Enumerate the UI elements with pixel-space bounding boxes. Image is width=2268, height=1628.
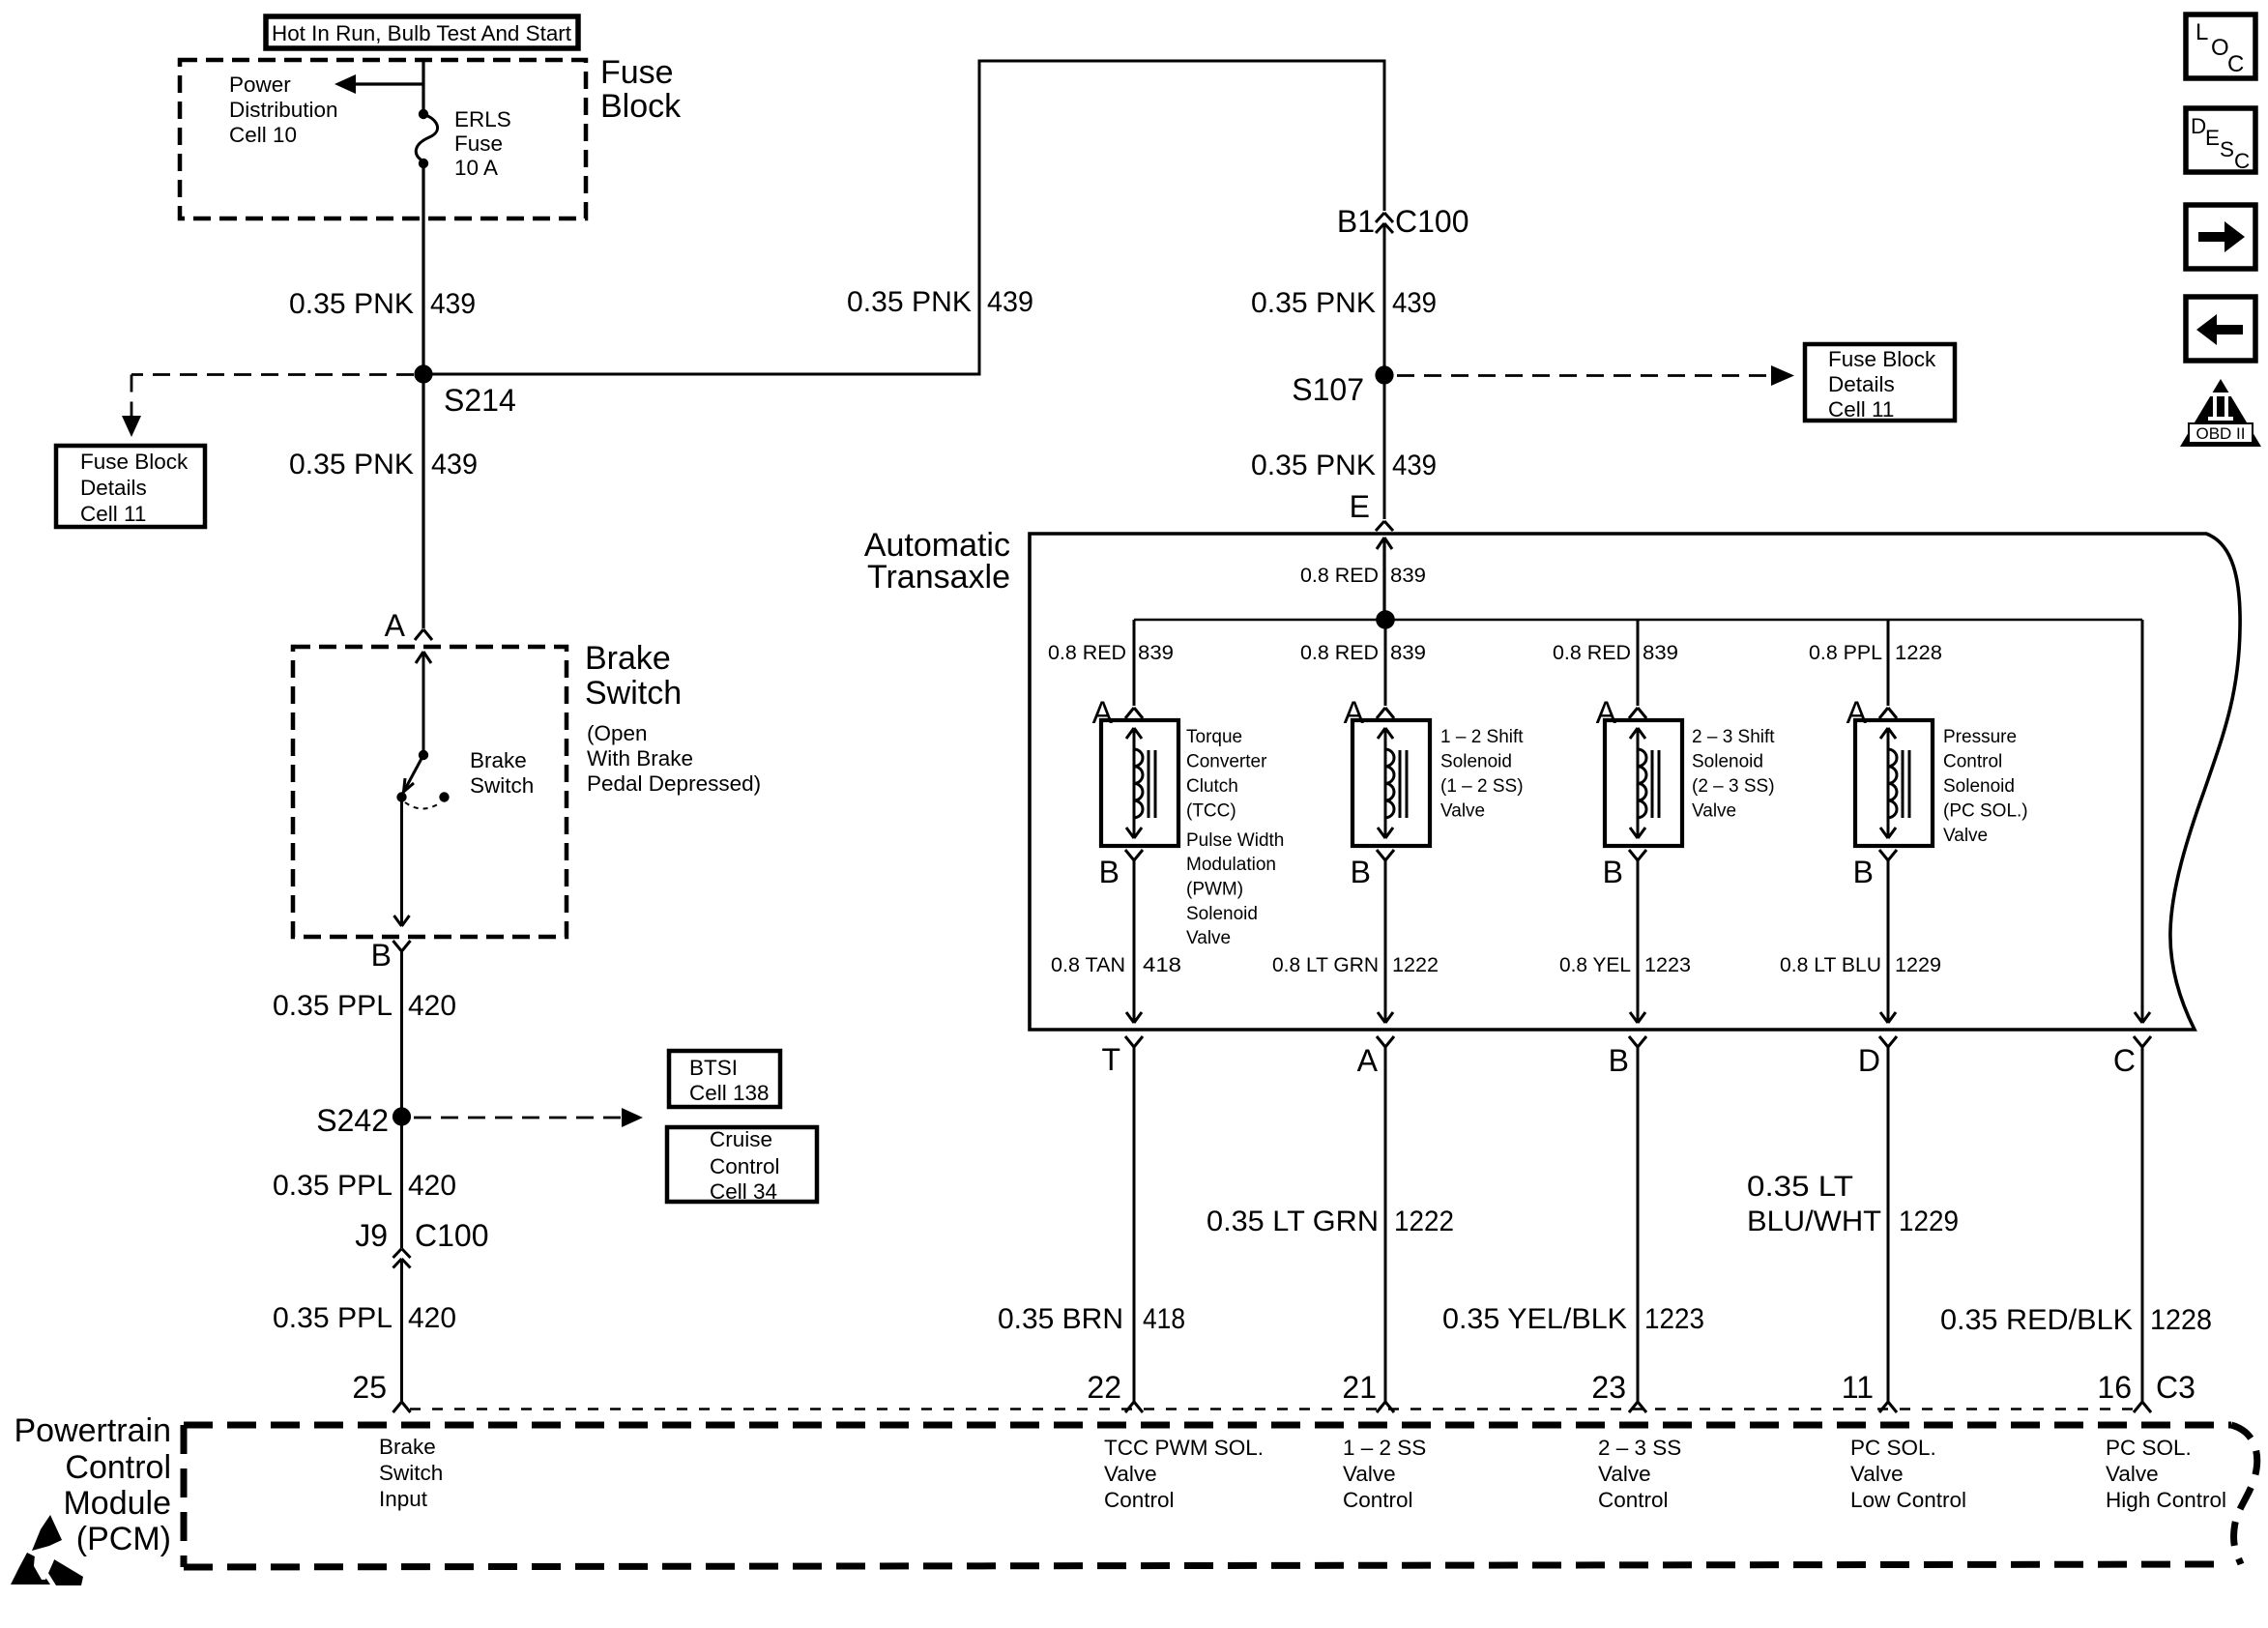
node: 2-3 SS valve control pin label — [1598, 1436, 1681, 1512]
solenoid L3: 2-3 shift solenoid valve coil — [1605, 720, 1682, 846]
svg-text:0.8 LT BLU: 0.8 LT BLU — [1780, 953, 1881, 976]
node B: PC solenoid pin B — [1853, 850, 1897, 889]
wire: D to PCM pin 11, 0.35 LT BLU/WHT 1229 — [1887, 1047, 1890, 1402]
node B: 2-3 shift solenoid pin B — [1603, 850, 1646, 889]
svg-text:Valve: Valve — [1692, 801, 1736, 822]
svg-text:Valve: Valve — [1943, 826, 1988, 846]
svg-text:439: 439 — [431, 449, 478, 480]
svg-text:0.35 YEL/BLK: 0.35 YEL/BLK — [1442, 1303, 1627, 1335]
node: distribution junction — [1376, 610, 1395, 629]
svg-text:Solenoid: Solenoid — [1186, 904, 1258, 924]
node: DESC legend icon — [2186, 108, 2255, 173]
svg-text:(PWM): (PWM) — [1186, 880, 1243, 900]
pin 25: PCM brake switch input pin — [352, 1370, 410, 1412]
node: wire label 0.35 YEL/BLK 1223 — [1442, 1303, 1704, 1335]
wire: B1 to S107, 0.35 PNK 439 — [1383, 223, 1386, 519]
solenoid L1: TCC PWM solenoid valve coil — [1101, 720, 1178, 846]
wire: PC B to transaxle case, 0.8 LT BLU 1229 — [1880, 860, 1896, 1023]
svg-text:Fuse Block: Fuse Block — [80, 450, 189, 474]
svg-text:1223: 1223 — [1644, 953, 1691, 976]
node T: transaxle case connector T — [1101, 1036, 1143, 1077]
svg-text:BLU/WHT: BLU/WHT — [1747, 1206, 1881, 1237]
svg-text:0.8 RED: 0.8 RED — [1048, 641, 1126, 664]
solenoid L4: pressure control solenoid valve coil — [1855, 720, 1933, 846]
svg-text:11: 11 — [1842, 1370, 1874, 1405]
pin 21: PCM 1-2 SS valve control pin — [1342, 1370, 1394, 1412]
svg-text:With Brake: With Brake — [587, 746, 693, 770]
svg-text:0.35 PNK: 0.35 PNK — [1251, 450, 1376, 481]
node: Brake Switch section label — [585, 640, 682, 712]
svg-text:Pedal Depressed): Pedal Depressed) — [587, 771, 761, 796]
svg-text:1228: 1228 — [2150, 1304, 2212, 1336]
svg-text:Valve: Valve — [1598, 1462, 1651, 1486]
svg-text:0.35 PNK: 0.35 PNK — [1251, 287, 1376, 319]
pin 16: PCM PC sol valve high control pin — [2097, 1370, 2151, 1412]
svg-text:1 – 2 SS: 1 – 2 SS — [1343, 1436, 1426, 1460]
svg-text:O: O — [2211, 35, 2229, 61]
svg-text:ERLS: ERLS — [454, 107, 511, 131]
svg-text:Control: Control — [710, 1154, 780, 1178]
svg-text:Pulse Width: Pulse Width — [1186, 830, 1284, 851]
svg-text:10 A: 10 A — [454, 156, 498, 180]
svg-text:B: B — [1609, 1043, 1629, 1078]
svg-text:Cruise: Cruise — [710, 1127, 772, 1151]
svg-text:S242: S242 — [316, 1103, 389, 1138]
svg-text:D: D — [2191, 114, 2206, 138]
svg-text:2 – 3 Shift: 2 – 3 Shift — [1692, 727, 1775, 747]
node: wire label 0.35 PNK 439 (middle run) — [847, 286, 1033, 318]
wire: PCM connector face dashed line — [410, 1408, 2142, 1410]
svg-text:839: 839 — [1643, 641, 1678, 664]
wire: B to PCM pin 23, 0.35 YEL/BLK 1223 — [1637, 1047, 1640, 1402]
svg-text:0.8 RED: 0.8 RED — [1553, 641, 1631, 664]
node: wire label 0.35 PPL 420 (below S242) — [273, 1170, 456, 1202]
wire: arrow to Power Distribution — [334, 74, 423, 94]
node: wire label 0.35 LT BLU/WHT 1229 — [1747, 1171, 1959, 1237]
node A: brake switch connector A — [385, 608, 432, 643]
svg-text:0.35 PNK: 0.35 PNK — [847, 286, 972, 318]
svg-text:Valve: Valve — [1850, 1462, 1904, 1486]
wire: fuse to S214, 0.35 PNK 439 — [422, 163, 424, 628]
node: TCC solenoid description — [1186, 727, 1284, 948]
svg-text:2 – 3 SS: 2 – 3 SS — [1598, 1436, 1681, 1460]
svg-text:Details: Details — [1828, 372, 1895, 396]
svg-text:Block: Block — [600, 88, 682, 125]
connector C100 pin J9 — [355, 1218, 488, 1268]
svg-text:J9: J9 — [355, 1218, 388, 1253]
node: wire label 0.35 PNK 439 (below S214) — [289, 449, 478, 480]
svg-text:Cell 10: Cell 10 — [229, 123, 297, 147]
node: Brake Switch Input pin label — [379, 1435, 443, 1511]
svg-text:(Open: (Open — [587, 721, 648, 745]
svg-text:1229: 1229 — [1899, 1206, 1959, 1237]
svg-text:B: B — [371, 938, 392, 973]
svg-text:Brake: Brake — [379, 1435, 436, 1459]
svg-text:1229: 1229 — [1895, 953, 1941, 976]
node E: transaxle connector E — [1350, 489, 1393, 531]
svg-text:S107: S107 — [1292, 372, 1364, 407]
node: wire label 0.35 PPL 420 (below C100) — [273, 1302, 456, 1334]
svg-text:0.35 LT: 0.35 LT — [1747, 1171, 1853, 1203]
node: Brake Switch device label — [470, 748, 534, 798]
svg-text:0.35 LT GRN: 0.35 LT GRN — [1207, 1206, 1379, 1237]
svg-text:0.8 RED: 0.8 RED — [1300, 564, 1379, 587]
wire: E into transaxle, 0.8 RED 839 with up arrow — [1377, 538, 1392, 620]
svg-text:Valve: Valve — [1343, 1462, 1396, 1486]
svg-text:Valve: Valve — [1440, 801, 1485, 822]
wire: TCC B to transaxle case, 0.8 TAN 418 — [1126, 860, 1142, 1023]
svg-text:(2 – 3 SS): (2 – 3 SS) — [1692, 776, 1775, 797]
svg-text:Cell 138: Cell 138 — [689, 1081, 770, 1105]
svg-text:Control: Control — [65, 1449, 171, 1486]
svg-text:0.35 BRN: 0.35 BRN — [998, 1303, 1123, 1335]
splice S242 — [316, 1103, 411, 1138]
svg-text:420: 420 — [408, 1170, 456, 1202]
node A: transaxle case connector A — [1357, 1036, 1394, 1078]
node: Hot In Run feed title box — [266, 16, 578, 48]
node: ERLS Fuse 10 A label — [454, 107, 511, 180]
wire: PC SOL high side drop (bus to case C) — [2135, 620, 2150, 1023]
svg-text:Control: Control — [1943, 752, 2002, 772]
node: forward arrow legend icon — [2186, 205, 2255, 269]
node: brake switch open note — [587, 721, 761, 796]
svg-text:420: 420 — [408, 990, 456, 1022]
svg-text:Valve: Valve — [1104, 1462, 1157, 1486]
svg-text:839: 839 — [1138, 641, 1174, 664]
svg-text:0.35 PNK: 0.35 PNK — [289, 288, 414, 320]
node: 1-2 SS valve control pin label — [1343, 1436, 1426, 1512]
svg-text:Torque: Torque — [1186, 727, 1242, 747]
svg-text:439: 439 — [430, 288, 476, 320]
svg-text:0.8 RED: 0.8 RED — [1300, 641, 1379, 664]
svg-text:A: A — [1357, 1043, 1379, 1078]
svg-text:B1: B1 — [1337, 204, 1375, 239]
svg-text:(PC SOL.): (PC SOL.) — [1943, 801, 2028, 822]
wire: feed into fuse block — [422, 60, 424, 112]
svg-text:1228: 1228 — [1895, 641, 1942, 664]
brake switch SW1 (dashed enclosure) — [293, 647, 567, 937]
svg-text:(TCC): (TCC) — [1186, 801, 1236, 822]
svg-text:Control: Control — [1104, 1488, 1175, 1512]
wire: PC SOL branch drop, 0.8 PPL 1228 — [1887, 620, 1890, 706]
svg-text:Brake: Brake — [585, 640, 671, 677]
node: PC solenoid description — [1943, 727, 2028, 846]
svg-text:Cell 34: Cell 34 — [710, 1179, 777, 1204]
svg-text:Transaxle: Transaxle — [867, 559, 1010, 596]
svg-text:Cell 11: Cell 11 — [80, 502, 146, 526]
fuse ERLS 10A — [416, 109, 437, 168]
node: 2-3 shift solenoid description — [1692, 727, 1775, 822]
svg-text:0.35 PPL: 0.35 PPL — [273, 1170, 393, 1202]
svg-text:Switch: Switch — [470, 773, 534, 798]
svg-text:OBD II: OBD II — [2195, 424, 2245, 443]
svg-text:0.8 PPL: 0.8 PPL — [1809, 641, 1882, 664]
svg-text:C: C — [2234, 149, 2250, 173]
svg-text:(1 – 2 SS): (1 – 2 SS) — [1440, 776, 1524, 797]
wire: A to PCM pin 21, 0.35 LT GRN 1222 — [1384, 1047, 1387, 1402]
node A: PC solenoid pin A — [1846, 695, 1897, 730]
svg-text:Control: Control — [1598, 1488, 1669, 1512]
wire: 1-2 shift branch drop, 0.8 RED 839 — [1384, 620, 1387, 706]
node: Fuse Block Details Cell 11 box (right) — [1805, 344, 1955, 422]
svg-text:Distribution: Distribution — [229, 98, 338, 122]
svg-text:S: S — [2220, 137, 2234, 161]
svg-text:BTSI: BTSI — [689, 1056, 738, 1080]
fuse block (dashed enclosure) — [180, 60, 586, 218]
node A: 2-3 shift solenoid pin A — [1596, 695, 1646, 730]
node: LOC legend icon — [2186, 15, 2255, 78]
pin 11: PCM PC sol valve low control pin — [1842, 1370, 1897, 1412]
wire: dashed reference from S214 to Fuse Block Details — [122, 375, 414, 438]
wire: S214 to C100 riser (0.35 PNK 439) — [423, 61, 1384, 374]
svg-text:TCC PWM SOL.: TCC PWM SOL. — [1104, 1436, 1264, 1460]
node: wire label 0.8 LT BLU 1229 — [1780, 953, 1941, 976]
svg-text:Powertrain: Powertrain — [14, 1412, 171, 1449]
svg-text:0.35 PPL: 0.35 PPL — [273, 990, 393, 1022]
svg-text:Pressure: Pressure — [1943, 727, 2017, 747]
node: wire label 0.35 RED/BLK 1228 — [1940, 1304, 2212, 1336]
wire: 2-3 shift branch drop, 0.8 RED 839 — [1637, 620, 1640, 706]
svg-text:Brake: Brake — [470, 748, 527, 772]
node A: TCC solenoid pin A — [1092, 695, 1143, 730]
svg-text:Converter: Converter — [1186, 752, 1267, 772]
svg-text:Solenoid: Solenoid — [1692, 752, 1763, 772]
node: Powertrain Control Module (PCM) label — [14, 1412, 171, 1557]
splice S214 — [414, 364, 515, 418]
svg-text:22: 22 — [1087, 1370, 1121, 1405]
svg-text:Fuse: Fuse — [600, 54, 674, 91]
node: OBD II icon — [2180, 379, 2261, 447]
svg-text:PC SOL.: PC SOL. — [1850, 1436, 1936, 1460]
node: wire label 0.8 TAN 418 — [1051, 953, 1181, 976]
svg-text:839: 839 — [1390, 641, 1426, 664]
switch: brake switch contacts and blade — [396, 750, 449, 809]
svg-text:1 – 2 Shift: 1 – 2 Shift — [1440, 727, 1524, 747]
svg-text:Fuse: Fuse — [454, 131, 503, 156]
node: Fuse Block Details Cell 11 box (left) — [56, 446, 205, 527]
node: wire label 0.8 RED 839 (1-2 branch) — [1300, 641, 1426, 664]
wire: switch to B with down arrow — [394, 798, 410, 927]
node B: brake switch connector B — [371, 938, 411, 973]
svg-text:420: 420 — [408, 1302, 456, 1334]
svg-text:1222: 1222 — [1392, 953, 1439, 976]
svg-text:Low Control: Low Control — [1850, 1488, 1966, 1512]
solenoid L2: 1-2 shift solenoid valve coil — [1352, 720, 1430, 846]
wire: 2-3 B to transaxle case, 0.8 YEL 1223 — [1630, 860, 1645, 1023]
wire: TCC branch drop, 0.8 RED 839 — [1133, 620, 1136, 706]
svg-text:Solenoid: Solenoid — [1943, 776, 2015, 797]
svg-text:Input: Input — [379, 1487, 428, 1511]
node: PC SOL valve high control pin label — [2106, 1436, 2226, 1512]
node B: TCC solenoid pin B — [1099, 850, 1143, 889]
node: wire label 0.35 PNK 439 (above S214) — [289, 288, 476, 320]
svg-text:439: 439 — [1392, 287, 1437, 319]
pin 22: PCM TCC PWM sol valve control pin — [1087, 1370, 1143, 1412]
svg-text:0.35 RED/BLK: 0.35 RED/BLK — [1940, 1304, 2133, 1336]
svg-text:Fuse Block: Fuse Block — [1828, 347, 1936, 371]
svg-text:C3: C3 — [2156, 1370, 2195, 1405]
svg-text:(PCM): (PCM) — [76, 1521, 171, 1557]
svg-text:B: B — [1603, 855, 1623, 889]
svg-text:Valve: Valve — [2106, 1462, 2159, 1486]
pin 23: PCM 2-3 SS valve control pin — [1591, 1370, 1646, 1412]
automatic transaxle box — [1030, 534, 2240, 1030]
node: TCC PWM SOL valve control pin label — [1104, 1436, 1264, 1512]
svg-text:Valve: Valve — [1186, 928, 1231, 948]
node: wire label 0.8 LT GRN 1222 — [1272, 953, 1439, 976]
svg-text:0.8 YEL: 0.8 YEL — [1559, 953, 1631, 976]
svg-text:E: E — [2205, 126, 2220, 150]
wire: dashed reference S242 to BTSI — [414, 1108, 643, 1127]
node: wire label 0.8 RED 839 (TCC branch) — [1048, 641, 1174, 664]
svg-text:25: 25 — [352, 1370, 387, 1405]
svg-text:Switch: Switch — [585, 675, 682, 712]
svg-text:Hot In Run, Bulb Test And Star: Hot In Run, Bulb Test And Start — [272, 21, 572, 45]
svg-text:Power: Power — [229, 73, 291, 97]
splice S107 — [1292, 365, 1393, 407]
svg-text:D: D — [1858, 1043, 1880, 1078]
svg-text:B: B — [1351, 855, 1371, 889]
node C: transaxle case connector C — [2113, 1036, 2151, 1078]
svg-text:Solenoid: Solenoid — [1440, 752, 1512, 772]
svg-text:Cell 11: Cell 11 — [1828, 397, 1894, 422]
node: wire label 0.35 LT GRN 1222 — [1207, 1206, 1454, 1237]
wire: dashed reference S107 to Fuse Block Details — [1397, 365, 1794, 386]
svg-text:Control: Control — [1343, 1488, 1413, 1512]
wire: B to S242, 0.35 PPL 420 — [400, 951, 403, 1248]
svg-text:Module: Module — [63, 1485, 171, 1522]
svg-text:0.35 PPL: 0.35 PPL — [273, 1302, 393, 1334]
PCM module box (dashed) — [184, 1425, 2257, 1567]
svg-text:B: B — [1099, 855, 1119, 889]
svg-text:L: L — [2195, 19, 2208, 45]
svg-text:C: C — [2227, 51, 2244, 77]
svg-text:16: 16 — [2097, 1370, 2132, 1405]
svg-text:Modulation: Modulation — [1186, 855, 1276, 875]
node: wire label 0.8 YEL 1223 — [1559, 953, 1691, 976]
svg-text:839: 839 — [1390, 564, 1426, 587]
node: Automatic Transaxle label — [864, 527, 1010, 596]
svg-text:21: 21 — [1342, 1370, 1377, 1405]
svg-text:E: E — [1350, 489, 1370, 524]
node A: 1-2 shift solenoid pin A — [1344, 695, 1394, 730]
svg-text:418: 418 — [1143, 1303, 1185, 1335]
node: Fuse Block label — [600, 54, 682, 125]
svg-text:T: T — [1101, 1042, 1120, 1077]
node: wire label 0.35 PNK 439 (below S107) — [1251, 450, 1437, 481]
svg-text:Clutch: Clutch — [1186, 776, 1238, 797]
wire: C100 to PCM pin 25, 0.35 PPL 420 — [400, 1259, 403, 1402]
svg-text:0.35 PNK: 0.35 PNK — [289, 449, 414, 480]
wire: C to PCM pin 16, 0.35 RED/BLK 1228 — [2141, 1047, 2144, 1402]
svg-text:0.8 TAN: 0.8 TAN — [1051, 953, 1125, 976]
svg-text:23: 23 — [1591, 1370, 1626, 1405]
svg-text:C100: C100 — [415, 1218, 489, 1253]
wire: 1-2 B to transaxle case, 0.8 LT GRN 1222 — [1378, 860, 1393, 1023]
node: wire label 0.35 PPL 420 (above S242) — [273, 990, 456, 1022]
connector C100 pin B1 — [1337, 204, 1469, 239]
node: BTSI Cell 138 box — [669, 1051, 780, 1107]
wire: T to PCM pin 22, 0.35 BRN 418 — [1133, 1047, 1136, 1402]
node D: transaxle case connector D — [1858, 1036, 1897, 1078]
node: Power Distribution Cell 10 label — [229, 73, 338, 147]
node: wire label 0.35 BRN 418 — [998, 1303, 1185, 1335]
svg-text:B: B — [1853, 855, 1874, 889]
node: wire label 0.8 PPL 1228 — [1809, 641, 1942, 664]
wire: distribution bus inside transaxle — [1134, 619, 2142, 622]
svg-text:1222: 1222 — [1394, 1206, 1454, 1237]
node B: transaxle case connector B — [1609, 1036, 1646, 1078]
svg-text:439: 439 — [1392, 450, 1437, 481]
svg-text:A: A — [385, 608, 406, 643]
node: wire label 0.8 RED 839 (feeder) — [1300, 564, 1426, 587]
node: ESD sensitivity icon — [11, 1515, 83, 1585]
node: wire label 0.35 PNK 439 (above S107) — [1251, 287, 1437, 319]
svg-text:PC SOL.: PC SOL. — [2106, 1436, 2192, 1460]
svg-text:418: 418 — [1143, 953, 1181, 976]
svg-text:Switch: Switch — [379, 1461, 443, 1485]
svg-text:S214: S214 — [444, 383, 516, 418]
svg-text:Details: Details — [80, 476, 147, 500]
svg-text:High Control: High Control — [2106, 1488, 2226, 1512]
wire: A into switch with up arrow — [416, 652, 431, 755]
node: PC SOL valve low control pin label — [1850, 1436, 1966, 1512]
svg-text:C100: C100 — [1395, 204, 1469, 239]
node: Cruise Control Cell 34 box — [667, 1127, 817, 1204]
node: backward arrow legend icon — [2186, 297, 2255, 361]
node B: 1-2 shift solenoid pin B — [1351, 850, 1394, 889]
node: wire label 0.8 RED 839 (2-3 branch) — [1553, 641, 1678, 664]
node: 1-2 shift solenoid description — [1440, 727, 1524, 822]
svg-text:439: 439 — [987, 286, 1033, 318]
svg-text:0.8 LT GRN: 0.8 LT GRN — [1272, 953, 1379, 976]
svg-text:1223: 1223 — [1644, 1303, 1704, 1335]
svg-text:C: C — [2113, 1043, 2136, 1078]
